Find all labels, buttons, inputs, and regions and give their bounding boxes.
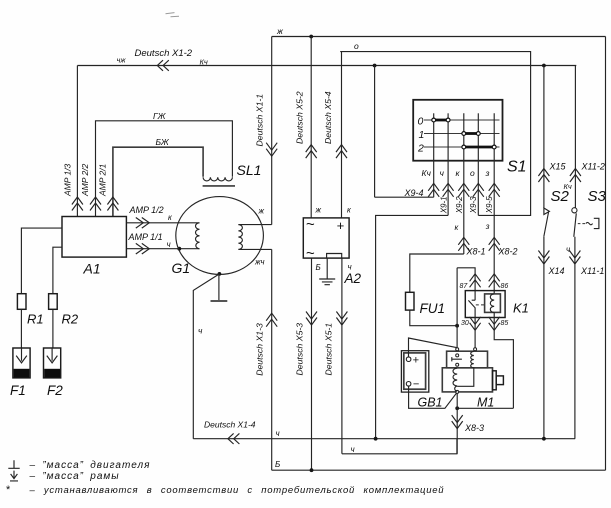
M1 solenoid coil [457,351,474,386]
S1 contact bar row2 [464,146,494,149]
wire ч stub (A2 ч to X8-3) [342,439,457,454]
junction bottom feed [455,406,459,410]
svg-text:K1: K1 [513,301,529,316]
GB1 minus terminal [406,382,411,387]
S3 actuator [578,223,586,225]
svg-text:30: 30 [461,320,469,327]
svg-text:F2: F2 [47,383,63,398]
connector X8-3 chevron [452,415,463,429]
wire net ГЖ loop [96,121,233,217]
svg-text:*: * [6,484,11,496]
connector Deutsch X1-3 chevron [266,313,277,327]
S1 contact bar row1 [464,132,479,135]
S1 column Кч [433,113,435,197]
connector 85 chevron [489,317,500,331]
svg-text:Б: Б [275,460,280,469]
K1 coil box [485,294,501,313]
M1 shaft [493,371,497,390]
svg-text:Deutsch X5-4: Deutsch X5-4 [323,91,333,144]
connector X8-1 chevron [458,237,469,251]
M1 motor coil [453,368,457,391]
junction G1 bottom [218,272,222,276]
svg-text:Deutsch X1-1: Deutsch X1-1 [254,94,264,147]
svg-text:ГЖ: ГЖ [153,111,167,121]
wire Deutsch X1-3 drop [271,249,273,470]
connector chevron col ч [443,183,454,197]
K1 contact [468,291,475,318]
GB1 plus terminal [406,357,411,362]
svg-text:X9-4: X9-4 [404,188,424,198]
svg-text:GB1: GB1 [418,396,443,410]
S1 column з [493,113,495,294]
S1 row 2 [424,146,500,148]
S1 contact bar row0 [434,119,448,122]
svg-text:−: − [413,379,420,391]
svg-text:Кч: Кч [422,168,432,178]
bottom ч net line [193,438,575,440]
connector Deutsch X1-4 chevron [228,433,240,444]
rectifier block A2 [303,218,349,258]
connector 30 chevron [470,317,481,331]
wire G1 right winding top to X1-1 riser [238,224,271,226]
svg-text:чж: чж [117,56,127,65]
svg-text:AMP 1/1: AMP 1/1 [128,232,163,242]
connector 86 chevron [489,274,500,288]
connector chevron col Кч [428,183,439,197]
svg-text:R1: R1 [27,312,44,327]
svg-text:X11-2: X11-2 [581,162,605,172]
svg-text:AMP 2/2: AMP 2/2 [80,163,90,197]
connector X11-2 chevron [570,169,581,183]
wire X8-3 (M1 to bottom) [456,393,458,453]
wire G1 to bottom ч line [193,274,219,439]
wire relay feed (node to K1 pin87 and M1) [457,268,475,348]
svg-text:F1: F1 [10,383,26,398]
wire right edge vertical (ж line down to Б line) [605,37,607,471]
S3 lower wire [574,237,576,439]
wire net БЖ loop [113,147,203,216]
wire Deutsch X5-1 drop [341,258,343,454]
wire K1 pin85 [494,312,513,408]
connector Deutsch X5-1 chevron [336,312,347,326]
svg-text:ч: ч [198,326,203,336]
wire bottom feed (M1 minus to 85 drop) [457,407,513,409]
svg-text:AMP 1/3: AMP 1/3 [63,163,73,197]
svg-text:2: 2 [417,143,424,155]
wire GB1 minus to bottom feed [409,386,458,408]
svg-text:ч: ч [566,245,570,254]
glow plug F1 [13,348,30,378]
S3 blade [574,213,577,237]
svg-text:G1: G1 [172,260,191,276]
wire G1 right winding bottom to X1-3 drop [238,248,271,250]
inductor SL1 core [203,185,235,187]
wire A1 to R2 [53,247,62,294]
S2 contact [544,208,550,236]
svg-text:Deutsch X1-3: Deutsch X1-3 [255,323,265,376]
junction ч net / S2 drop [542,437,546,441]
svg-text:Deutsch X5-2: Deutsch X5-2 [294,91,304,144]
svg-text:– ”масса” двигателя: – ”масса” двигателя [29,460,151,471]
block A1 [62,217,126,258]
svg-text:Deutsch X5-1: Deutsch X5-1 [324,323,334,376]
junction on ж line at X5-2 riser [309,35,313,39]
S1 column о [477,113,479,215]
svg-text:X8-1: X8-1 [466,247,486,257]
S1 column к [463,113,465,254]
junction FU1/relay feed [455,324,459,328]
connector X11-1 chevron [569,251,580,265]
svg-text:X11-1: X11-1 [580,266,604,276]
svg-text:о: о [354,41,359,51]
wire AMP1/3 riser (X1-2 down to A1) [76,66,78,217]
svg-text:S1: S1 [507,159,527,176]
svg-text:ч: ч [348,263,352,272]
svg-text:+: + [337,218,345,233]
stray mark top center [166,13,180,17]
wire Deutsch X5-4 riser [341,52,343,218]
svg-text:X9-2: X9-2 [455,196,464,214]
svg-text:Deutsch X1-2: Deutsch X1-2 [135,48,193,59]
svg-text:X8-3: X8-3 [464,423,484,433]
G1 left winding [196,223,200,249]
svg-text:S3: S3 [588,188,607,205]
svg-text:– ”масса” рамы: – ”масса” рамы [29,471,120,482]
svg-text:ж: ж [258,207,265,216]
S2 lower wire [543,236,545,439]
connector Deutsch X1-1 chevron [266,143,277,157]
M1 solenoid contact [452,357,462,361]
connector AMP 2/1 chevron [107,197,118,211]
junction Б line / A2 Б drop [310,468,314,472]
connector X14 chevron [538,251,549,265]
svg-text:жч: жч [254,258,264,267]
connector X8-2 chevron [489,237,500,251]
legend ground engine symbol [8,460,19,468]
svg-text:AMP 1/2: AMP 1/2 [129,205,164,215]
connector Deutsch X1-2 chevron [157,60,169,71]
svg-text:ч: ч [167,240,171,249]
svg-text:X8-2: X8-2 [498,247,518,257]
svg-text:ж: ж [276,26,284,36]
relay K1 box [465,291,505,318]
connector 87 chevron [470,274,481,288]
wire net ж (top horizontal) [272,36,606,38]
junction X1-2/X9-4 riser [373,64,377,68]
connector AMP 1/3 chevron [72,197,83,211]
wire AMP 1/2 (A1 to G1 winding) [126,222,199,224]
svg-text:Deutsch X1-4: Deutsch X1-4 [204,420,256,430]
junction X1-2/S2 riser [542,64,546,68]
fuse FU1 body [406,292,415,310]
connector AMP 1/2 chevron [136,218,150,229]
svg-text:86: 86 [501,283,509,290]
M1 terminals [456,348,459,351]
ground engine (G1) [218,273,220,300]
svg-text:Deutsch X5-3: Deutsch X5-3 [294,323,304,376]
S3 contact circle [572,208,577,213]
svg-text:R2: R2 [62,312,79,327]
wire AMP 1/1 (A1 to G1 winding) [126,248,199,250]
svg-text:Кч: Кч [200,58,208,67]
S1 row 1 [424,133,500,135]
wire Deutsch X1-2 (horizontal) [77,65,576,67]
wire R1 to F1 [20,309,22,348]
connector chevron col к [458,183,469,197]
svg-text:з: з [485,222,490,231]
svg-text:~: ~ [306,216,315,233]
S1 column ч [447,113,449,215]
svg-text:з: з [485,168,490,178]
svg-text:ч: ч [351,445,355,454]
connector chevron col з [489,183,500,197]
wire K1 pin30 to M1 [474,318,476,348]
switch S1 box [413,100,502,161]
inductor SL1 coil [203,177,232,181]
wire Deutsch X1-1 riser [271,37,273,225]
wire FU1 to node30 [410,310,457,326]
svg-text:SL1: SL1 [237,162,262,178]
connector Deutsch X5-3 chevron [306,312,317,326]
fuse FU1 wire from X8-1 [410,254,464,292]
connector AMP 2/2 chevron [90,197,101,211]
generator G1 body [176,197,264,275]
svg-text:M1: M1 [477,396,494,410]
switch S3 riser [574,66,576,209]
svg-text:X9-3: X9-3 [469,196,478,214]
wire GB1 plus to M1 [409,338,458,357]
svg-text:о: о [470,168,475,178]
svg-text:1: 1 [419,129,425,141]
svg-text:Б: Б [316,263,321,272]
starter M1 solenoid box [447,351,488,368]
resistor R1 [17,294,26,310]
svg-text:X15: X15 [549,162,567,172]
wire Deutsch X5-2 riser [310,37,312,218]
legend ground frame symbol [10,471,18,481]
svg-text:X14: X14 [548,266,565,276]
G1 right winding [238,225,242,250]
wire X9-4 (col Кч to X1-2 line) [375,66,434,198]
svg-text:~: ~ [306,245,315,262]
connector X15 chevron [538,169,549,183]
K1 coil winding [490,294,494,313]
svg-text:+: + [413,355,420,367]
starter M1 motor box [442,368,492,392]
svg-text:A2: A2 [344,271,362,286]
svg-text:ж: ж [315,206,322,215]
svg-text:A1: A1 [83,261,101,277]
connector Deutsch X5-2 chevron [306,145,317,159]
glow plug F2 [44,348,61,378]
svg-text:X9-1: X9-1 [439,196,448,214]
S1 row 0 [424,119,500,121]
svg-text:0: 0 [418,116,424,128]
K1 actuator dashed link [476,304,485,306]
wire Б line [272,469,606,471]
wire Deutsch X5-3 drop [311,258,313,470]
svg-text:AMP 2/1: AMP 2/1 [98,163,108,197]
wire col ч to bottom ч net [376,215,449,438]
svg-text:Кч: Кч [564,182,572,191]
svg-text:X9-5: X9-5 [485,196,494,214]
connector Deutsch X5-4 chevron [336,145,347,159]
svg-text:БЖ: БЖ [156,137,170,147]
junction AMP1/1 at G1 edge [177,247,181,251]
switch S2 riser [543,66,545,208]
svg-text:85: 85 [501,320,509,327]
A2 notch [327,254,342,259]
svg-text:87: 87 [460,283,469,290]
wire A1 to R1 [21,228,62,294]
ground at A2 [326,258,328,279]
wire net о (horizontal) [340,52,530,216]
connector AMP 1/1 chevron [136,243,150,254]
wire R2 to F2 [52,309,54,348]
svg-text:ч: ч [440,168,445,178]
battery GB1 [401,351,428,392]
resistor R2 [49,294,58,310]
svg-text:ч: ч [276,429,280,438]
connector chevron col о [473,183,484,197]
svg-text:FU1: FU1 [420,301,446,316]
junction ч net / S1 col ч drop [374,437,378,441]
svg-text:– устанавливаются в соответст: – устанавливаются в соответствии с потре… [29,485,445,496]
